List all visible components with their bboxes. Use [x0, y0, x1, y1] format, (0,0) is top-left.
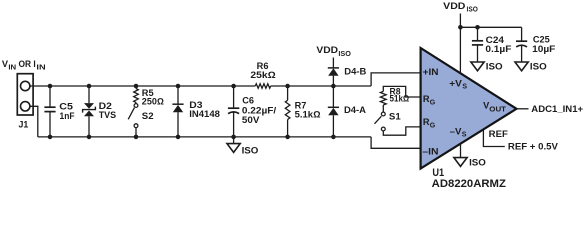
ground ISO below C25 — [515, 62, 528, 71]
wire R8 to S1 — [382, 105, 384, 112]
svg-text:G: G — [430, 100, 436, 107]
resistor R8 — [380, 91, 386, 105]
svg-text:ISO: ISO — [242, 145, 259, 155]
svg-text:J1: J1 — [19, 119, 29, 129]
svg-text:D4-A: D4-A — [344, 105, 366, 115]
svg-text:10µF: 10µF — [532, 44, 556, 54]
junction D3 top rail — [176, 84, 181, 89]
svg-text:250Ω: 250Ω — [142, 97, 164, 107]
svg-text:ISO: ISO — [467, 7, 479, 14]
ground ISO below C6 — [227, 144, 240, 153]
svg-text:0.1µF: 0.1µF — [485, 44, 511, 54]
wire R5 top stub — [135, 86, 137, 89]
svg-text:51kΩ: 51kΩ — [390, 94, 410, 104]
svg-text:0.22µF/: 0.22µF/ — [242, 105, 277, 115]
capacitor C6 — [228, 108, 239, 113]
svg-text:5.1kΩ: 5.1kΩ — [295, 109, 321, 119]
wire step up to +IN — [371, 73, 421, 86]
svg-text:50V: 50V — [242, 115, 260, 125]
svg-text:VDD: VDD — [316, 45, 338, 55]
diode D2 TVS — [84, 103, 94, 116]
op-amp U1 — [421, 48, 517, 169]
wire D4-A to bottom rail — [332, 115, 334, 137]
wire C6 bottom stem — [233, 112, 235, 137]
svg-text:REF: REF — [489, 129, 509, 139]
wire R7 bottom stub — [287, 120, 289, 137]
wire C5 top stem — [49, 86, 51, 107]
svg-text:S2: S2 — [142, 111, 154, 121]
svg-text:ISO: ISO — [486, 62, 503, 72]
svg-text:+IN: +IN — [423, 67, 439, 77]
wire C24 bottom stem — [477, 45, 479, 62]
junction R7 top rail — [285, 84, 290, 89]
svg-text:IN: IN — [8, 64, 16, 71]
svg-text:S: S — [462, 132, 467, 139]
junction C24 VDD rail — [475, 25, 480, 30]
svg-text:C5: C5 — [59, 101, 73, 111]
junction D2 bottom rail — [87, 135, 92, 140]
svg-text:G: G — [430, 123, 436, 130]
junction C6 bottom rail — [231, 135, 236, 140]
wire bottom rail — [38, 136, 371, 138]
wire D3 bottom stem — [177, 112, 179, 137]
svg-text:–IN: –IN — [422, 147, 439, 157]
wire +VS stem — [459, 27, 461, 72]
junction D2 top rail — [87, 84, 92, 89]
wire ground stem below C6 — [233, 137, 235, 144]
wire S1 to RG lower — [383, 127, 420, 135]
svg-text:D4-B: D4-B — [344, 66, 366, 76]
junction R7 bottom rail — [285, 135, 290, 140]
wire C25 bottom stem — [521, 46, 523, 63]
svg-text:OR I: OR I — [19, 59, 36, 69]
ground ISO below C24 — [471, 62, 484, 71]
wire D3 top stem — [177, 86, 179, 104]
resistor R5 — [134, 89, 139, 103]
connector J1 — [17, 74, 33, 115]
wire R7 top stub — [287, 86, 289, 100]
ground ISO below -VS — [454, 158, 467, 167]
wire C6 top stem — [233, 86, 235, 108]
wire D2 bottom stem — [88, 116, 90, 137]
svg-text:REF + 0.5V: REF + 0.5V — [508, 142, 559, 152]
svg-text:TVS: TVS — [99, 110, 116, 120]
wire C25 top stem — [521, 27, 523, 41]
wire R5 to S2 — [135, 102, 137, 103]
junction R5 top rail — [134, 84, 139, 89]
svg-text:S: S — [462, 84, 467, 91]
junction S2 bottom rail — [134, 135, 139, 140]
diode D4-A — [328, 108, 338, 115]
svg-text:AD8220ARMZ: AD8220ARMZ — [432, 178, 506, 190]
svg-text:+V: +V — [449, 79, 463, 89]
wire -VS stem — [460, 144, 462, 158]
wire top rail left of R6 — [30, 85, 256, 87]
svg-text:25kΩ: 25kΩ — [250, 70, 275, 80]
svg-text:1nF: 1nF — [60, 111, 75, 121]
svg-text:VDD: VDD — [443, 1, 466, 11]
junction C5 top rail — [48, 84, 53, 89]
wire VDD to D4-B — [332, 58, 334, 68]
svg-text:–V: –V — [450, 126, 463, 136]
wire C24 top stem — [477, 27, 479, 41]
resistor R7 — [285, 100, 290, 119]
junction D4 bottom rail — [331, 135, 336, 140]
junction D3 bottom rail — [176, 135, 181, 140]
svg-text:C6: C6 — [242, 95, 254, 105]
capacitor C25 — [516, 41, 527, 47]
wire REF — [483, 129, 504, 147]
svg-text:ISO: ISO — [530, 62, 547, 72]
junction D4 top rail — [331, 84, 336, 89]
svg-text:ISO: ISO — [469, 157, 486, 167]
wire RG upper to R8 bracket — [383, 86, 420, 97]
svg-text:IN: IN — [36, 64, 45, 71]
wire VDD iso top — [460, 14, 521, 28]
wire top rail right of R6 — [271, 85, 371, 87]
wire step down to -IN — [371, 137, 421, 148]
wire D4-B to rail — [332, 76, 334, 86]
svg-text:ISO: ISO — [338, 51, 351, 58]
svg-text:ADC1_IN1+: ADC1_IN1+ — [531, 104, 583, 114]
wire rail to D4-A — [332, 86, 334, 107]
resistor R6 — [255, 84, 270, 88]
wire D2 top stem — [88, 86, 90, 103]
wire C5 bottom stem — [49, 112, 51, 137]
junction C5 bottom rail — [48, 135, 53, 140]
switch S1 — [381, 112, 385, 131]
junction VDD +VS stem — [458, 25, 463, 30]
diode D3 — [173, 105, 183, 112]
wire VOUT output — [517, 108, 529, 110]
junction C6 top rail — [231, 84, 236, 89]
switch S2 — [134, 104, 138, 128]
svg-text:S1: S1 — [389, 111, 401, 121]
capacitor C5 — [44, 107, 55, 111]
diode D4-B — [328, 68, 338, 75]
capacitor C24 — [472, 41, 483, 45]
wire S2 to bottom rail — [135, 128, 137, 137]
svg-text:IN4148: IN4148 — [189, 109, 220, 119]
svg-text:OUT: OUT — [489, 107, 507, 114]
wire J1 bottom jumper — [30, 106, 38, 137]
